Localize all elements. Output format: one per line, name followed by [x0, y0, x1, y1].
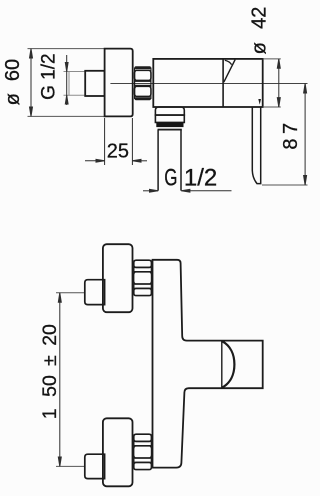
- svg-text:1: 1: [39, 408, 61, 419]
- lever taper arc: [225, 60, 232, 64]
- outlet dark band: [156, 122, 183, 127]
- shower outlet below body: [155, 107, 184, 122]
- svg-text:42: 42: [249, 7, 271, 29]
- body (side view): [153, 59, 262, 107]
- dimension 87 line: [304, 84, 307, 186]
- svg-text:±: ±: [39, 355, 61, 366]
- nut (side view): [135, 66, 152, 100]
- svg-text:7: 7: [280, 123, 302, 134]
- bottom nut (front): [134, 434, 152, 469]
- bottom wall flange (front): [103, 418, 133, 486]
- wall flange (side view): [105, 49, 133, 117]
- lever taper diagonal: [224, 60, 235, 83]
- dimension 150 ± 20 line: [58, 293, 61, 467]
- flange extension line bottom: [28, 115, 105, 117]
- lever bottom extension line: [262, 184, 308, 186]
- lever edge mark: [258, 99, 261, 105]
- svg-text:ø: ø: [249, 42, 271, 54]
- flange extension line top: [28, 48, 105, 50]
- svg-text:25: 25: [107, 140, 129, 162]
- body partition line: [222, 59, 224, 107]
- dimension G 1/2 line (wall pipe): [65, 55, 68, 105]
- svg-text:ø: ø: [2, 93, 24, 105]
- bottom inlet pipe stub: [85, 454, 105, 478]
- wall pipe dark part: [85, 71, 104, 96]
- handle lever (side view): [252, 107, 260, 184]
- centerline (pipe axis): [110, 83, 307, 85]
- svg-text:50: 50: [39, 375, 61, 397]
- dimension G 1/2 (outlet): [143, 189, 232, 192]
- body top edge extension (to ø42): [263, 58, 281, 60]
- wall pipe thin part (G 1/2 thread, light): [64, 72, 87, 96]
- cartridge dome chord: [221, 341, 223, 389]
- cartridge dome arc: [222, 341, 235, 388]
- svg-text:20: 20: [39, 324, 61, 346]
- svg-text:60: 60: [2, 59, 24, 81]
- body (front view): [153, 260, 263, 468]
- top nut (front): [134, 260, 152, 295]
- dimension 25 (flange depth): [85, 118, 147, 165]
- bottom inlet centerline extension: [56, 465, 85, 467]
- svg-text:G: G: [164, 164, 177, 191]
- outlet seam line: [158, 129, 182, 131]
- body bottom edge extension (to ø42): [263, 106, 281, 108]
- outlet pipe: [158, 130, 181, 191]
- dimension ø60 line: [30, 49, 33, 117]
- dimension ø42 line: [277, 59, 280, 107]
- svg-text:G 1/2: G 1/2: [39, 53, 60, 99]
- svg-text:8: 8: [280, 138, 302, 149]
- top inlet centerline extension: [56, 292, 85, 294]
- svg-text:1/2: 1/2: [184, 164, 217, 191]
- top inlet pipe stub: [85, 280, 105, 305]
- top wall flange (front): [103, 244, 133, 312]
